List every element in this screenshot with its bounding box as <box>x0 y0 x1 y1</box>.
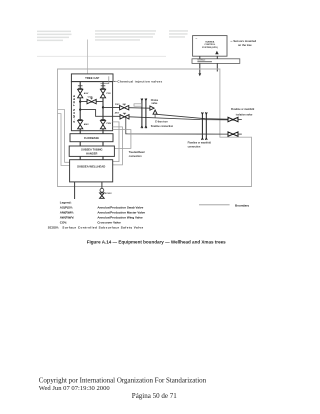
sub-boundary right B <box>113 127 123 165</box>
svg-text:Tree/wellhead: Tree/wellhead <box>129 151 145 154</box>
svg-text:E-line riser: E-line riser <box>155 121 167 124</box>
svg-text:Legend:: Legend: <box>60 201 72 205</box>
sub-boundary right A <box>113 122 119 162</box>
wire: annulus wing line <box>80 110 120 117</box>
svg-text:Annulus/Production Swab Valve: Annulus/Production Swab Valve <box>97 206 143 210</box>
faint horizontal rule under header <box>37 55 166 57</box>
svg-text:Crossover Valve: Crossover Valve <box>97 221 121 225</box>
svg-text:TREE CAP: TREE CAP <box>85 76 99 80</box>
wire: annulus below wellhead <box>74 182 76 199</box>
valve ASV <box>78 88 89 98</box>
svg-text:connection: connection <box>129 155 142 158</box>
svg-text:Surface Controlled Subsurface: Surface Controlled Subsurface Safety Val… <box>62 226 143 230</box>
valve AWV <box>115 111 129 119</box>
svg-text:PMV: PMV <box>107 123 112 125</box>
svg-text:SCSSV:: SCSSV: <box>48 226 59 230</box>
e-line stub box <box>134 104 142 106</box>
wire: control line to tree (with arrow) <box>199 56 201 73</box>
label: sensors mounted on the tree <box>233 39 256 47</box>
svg-text:Annulus/Production Wing Valve: Annulus/Production Wing Valve <box>97 216 143 220</box>
svg-text:Figure A.14 — Equipment bounda: Figure A.14 — Equipment boundary — Wellh… <box>87 240 226 245</box>
arrowhead control line <box>198 73 201 76</box>
label: flowline or manifold connection <box>188 141 212 148</box>
sub-boundary right C <box>113 130 131 149</box>
control umbilical wire into tree cap <box>87 40 89 74</box>
label: chemical injection valves <box>114 80 163 84</box>
faint header text block right <box>169 30 188 38</box>
svg-text:AS(P)SV:: AS(P)SV: <box>60 206 73 210</box>
chemical injection port tick right <box>101 85 106 87</box>
svg-text:Copyright por International Or: Copyright por International Organization… <box>39 376 207 384</box>
triangle marker inside control box <box>215 51 219 55</box>
svg-text:Flowline or manifold: Flowline or manifold <box>188 141 212 144</box>
svg-text:connection: connection <box>188 146 201 149</box>
chemical injection port tick left <box>78 85 83 87</box>
svg-text:Annulus/Production Master Valv: Annulus/Production Master Valve <box>97 211 145 215</box>
sub-boundary left B <box>58 114 70 166</box>
tree cap box <box>71 74 113 82</box>
wire: choke outlet to flowline <box>155 114 228 119</box>
wire: annulus bore (left column) <box>79 82 81 160</box>
svg-text:Sensors mounted: Sensors mounted <box>233 39 256 43</box>
svg-text:PWV: PWV <box>115 104 120 106</box>
valve PMV <box>100 120 111 129</box>
svg-text:on the tree: on the tree <box>238 43 252 47</box>
svg-text:X-MAS TREE: X-MAS TREE <box>72 94 76 123</box>
label: flowline or manifold isolation valve <box>231 108 255 116</box>
svg-text:valve: valve <box>151 102 158 105</box>
wire: production bore (right column) <box>102 82 104 160</box>
valve AMV <box>78 120 90 129</box>
svg-text:HANGER: HANGER <box>86 151 97 155</box>
subsea tubing hanger box <box>69 146 114 156</box>
flowbase box <box>70 134 113 142</box>
svg-text:AM(P)MV:: AM(P)MV: <box>60 211 74 215</box>
svg-text:PSV: PSV <box>107 93 112 95</box>
legend: boundary line sample <box>199 204 230 206</box>
svg-text:SUBSEA: SUBSEA <box>205 41 215 44</box>
svg-text:Flowline or manifold: Flowline or manifold <box>231 108 255 111</box>
svg-text:COV:: COV: <box>60 221 67 225</box>
svg-text:flowline connection: flowline connection <box>151 125 174 128</box>
wire: crossover link <box>80 100 103 102</box>
svg-text:SCSSV: SCSSV <box>105 193 112 195</box>
valve: flowline isolation valve 1 <box>228 117 242 121</box>
svg-text:COV: COV <box>88 96 93 98</box>
wire: production below wellhead <box>101 182 103 189</box>
node: annulus/AWV junction <box>79 108 81 110</box>
svg-text:FLOWBASE: FLOWBASE <box>84 136 99 140</box>
svg-text:Página 50 de 71: Página 50 de 71 <box>132 392 177 400</box>
svg-text:SYSTEM (HPU): SYSTEM (HPU) <box>202 47 218 49</box>
valve: flowline isolation valve 2 <box>228 132 242 136</box>
svg-text:SUBSEA TUBING: SUBSEA TUBING <box>81 148 102 152</box>
node: production/PWV junction <box>102 106 104 108</box>
svg-text:AWV: AWV <box>115 111 120 114</box>
wire: annulus line to flowline connector <box>129 117 228 120</box>
wire: annulus flowline branch <box>126 117 228 135</box>
wire: production wing line <box>103 106 120 108</box>
interface box <box>192 59 240 64</box>
svg-text:SUBSEA WELLHEAD: SUBSEA WELLHEAD <box>77 164 105 168</box>
connector: tree/e-line connector (double bars) <box>141 98 147 128</box>
connector: flowline connector (double bars) <box>202 112 208 140</box>
label: tree/wellhead connection <box>129 151 145 158</box>
control system box U1 (subsea control system/HPU) <box>193 36 227 57</box>
svg-text:Chemical injection valves: Chemical injection valves <box>117 80 162 84</box>
choke valve CV1 <box>150 99 159 118</box>
leader line near tree cap <box>100 76 108 83</box>
svg-text:Boundary: Boundary <box>235 204 249 208</box>
faint header text block left <box>37 31 72 41</box>
wire: control line to boundary <box>216 56 218 71</box>
boundary outline <box>58 69 252 187</box>
svg-text:ASV: ASV <box>84 92 89 95</box>
svg-text:AW(P)WV:: AW(P)WV: <box>60 216 75 220</box>
valve SCSSV <box>100 188 113 198</box>
node: annulus/COV junction <box>79 100 81 102</box>
x-mas tree box <box>71 82 112 131</box>
label: e-line riser connection <box>151 121 174 129</box>
svg-text:AMV: AMV <box>84 123 89 126</box>
svg-text:Wed Jun 07 07:19:30 2000: Wed Jun 07 07:19:30 2000 <box>39 385 111 392</box>
sub-boundary left A <box>58 110 70 163</box>
valve PWV <box>115 104 129 110</box>
legend block <box>48 201 146 230</box>
faint header text block middle <box>95 30 156 41</box>
svg-text:isolation valve: isolation valve <box>236 113 253 116</box>
wire: wing line to choke <box>129 107 150 110</box>
valve COV <box>87 96 96 103</box>
valve PSV <box>100 88 111 98</box>
subsea wellhead box <box>70 160 113 182</box>
